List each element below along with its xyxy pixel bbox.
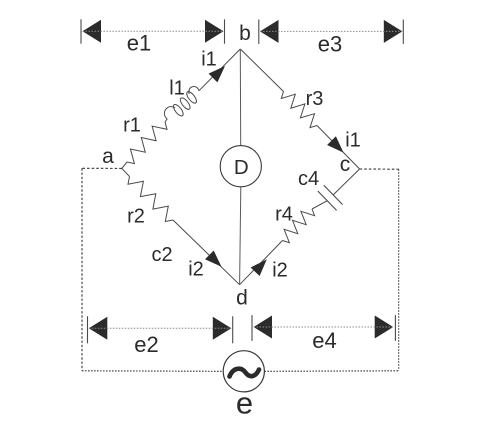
resistor r1 [127, 122, 167, 164]
voltage arrow e1 left head [83, 20, 102, 43]
detector D circle [220, 146, 261, 187]
svg-text:D: D [234, 156, 249, 179]
svg-text:e1: e1 [127, 30, 151, 55]
resistor r4 [283, 209, 315, 243]
wire: node b to r3 [240, 49, 283, 92]
voltage arrow e1 left tick [80, 19, 82, 43]
wire: bottom right (source to corner) [264, 370, 398, 373]
wire: arm a-b lower lead [122, 162, 127, 168]
wire: node b down to detector [239, 49, 241, 146]
wire: r3 to node c [317, 126, 360, 170]
voltage arrow e2 line [89, 327, 232, 329]
voltage arrow e1 line [83, 30, 224, 32]
voltage arrow e1 right head [205, 20, 224, 43]
wire: node a to r2 [122, 168, 130, 176]
wire: bottom left (corner to source) [82, 370, 223, 373]
wire: r4 to capacitor c4 [312, 201, 327, 209]
svg-text:c2: c2 [151, 244, 172, 266]
wire: l1 to node b [199, 49, 240, 91]
voltage arrow e4 right tick [394, 315, 396, 341]
wire: outer loop left vertical [81, 168, 83, 370]
svg-text:b: b [239, 22, 251, 45]
voltage arrow e3 left head [260, 20, 279, 43]
voltage arrow e2 left head [89, 317, 108, 340]
svg-text:e4: e4 [312, 328, 336, 353]
resistor r2 [128, 177, 173, 222]
voltage arrow e2 right head [213, 317, 232, 340]
current arrow i1 (a-b arm) [209, 66, 225, 82]
voltage arrow e3 left tick [258, 20, 260, 44]
voltage arrow e3 right tick [402, 20, 404, 44]
svg-text:d: d [236, 286, 248, 309]
voltage arrow e2 left tick [87, 316, 89, 343]
wire: r2 to node d [173, 220, 240, 285]
wire: node a to left corner [82, 167, 122, 169]
wire: node d to r4 [240, 241, 283, 285]
current arrow i2 (a-d arm) [205, 251, 222, 267]
capacitor c4 plate (c side) [324, 185, 343, 204]
capacitor c4 plate (r4 side) [318, 191, 337, 210]
svg-text:i2: i2 [188, 258, 204, 280]
ac source circle [223, 351, 264, 392]
voltage arrow e1 right tick [224, 19, 226, 43]
svg-text:e: e [236, 385, 253, 420]
svg-text:r4: r4 [275, 204, 293, 226]
voltage arrow e4 left head [254, 316, 273, 339]
resistor r3 [281, 92, 317, 128]
voltage arrow e3 right head [384, 20, 403, 43]
wire: r1 to l1 [165, 119, 167, 122]
svg-text:a: a [102, 145, 114, 168]
current arrow i2 (d-c arm) [251, 259, 267, 276]
wire: node c to right corner [360, 168, 399, 170]
svg-text:c: c [340, 153, 351, 176]
svg-text:l1: l1 [169, 78, 185, 100]
wire: capacitor c4 to node c [333, 169, 359, 195]
svg-text:r3: r3 [306, 88, 324, 110]
svg-text:i1: i1 [201, 48, 217, 70]
svg-text:i1: i1 [345, 130, 361, 152]
svg-text:r2: r2 [127, 206, 145, 228]
svg-text:r1: r1 [123, 114, 141, 136]
voltage arrow e4 left tick [251, 315, 253, 341]
svg-text:e2: e2 [134, 332, 158, 357]
voltage arrow e3 line [260, 30, 402, 32]
current arrow i1 (b-c arm) [327, 136, 343, 152]
voltage arrow e4 right head [375, 316, 394, 339]
wire: detector down to node d [240, 187, 241, 285]
svg-text:c4: c4 [298, 168, 319, 190]
voltage arrow e2 right tick [232, 316, 234, 343]
inductor l1 [164, 87, 199, 119]
svg-text:e3: e3 [318, 32, 342, 57]
wire: outer loop right vertical [398, 169, 400, 371]
svg-text:i2: i2 [272, 259, 288, 281]
voltage arrow e4 line [254, 326, 394, 328]
ac source sine symbol [230, 369, 260, 377]
